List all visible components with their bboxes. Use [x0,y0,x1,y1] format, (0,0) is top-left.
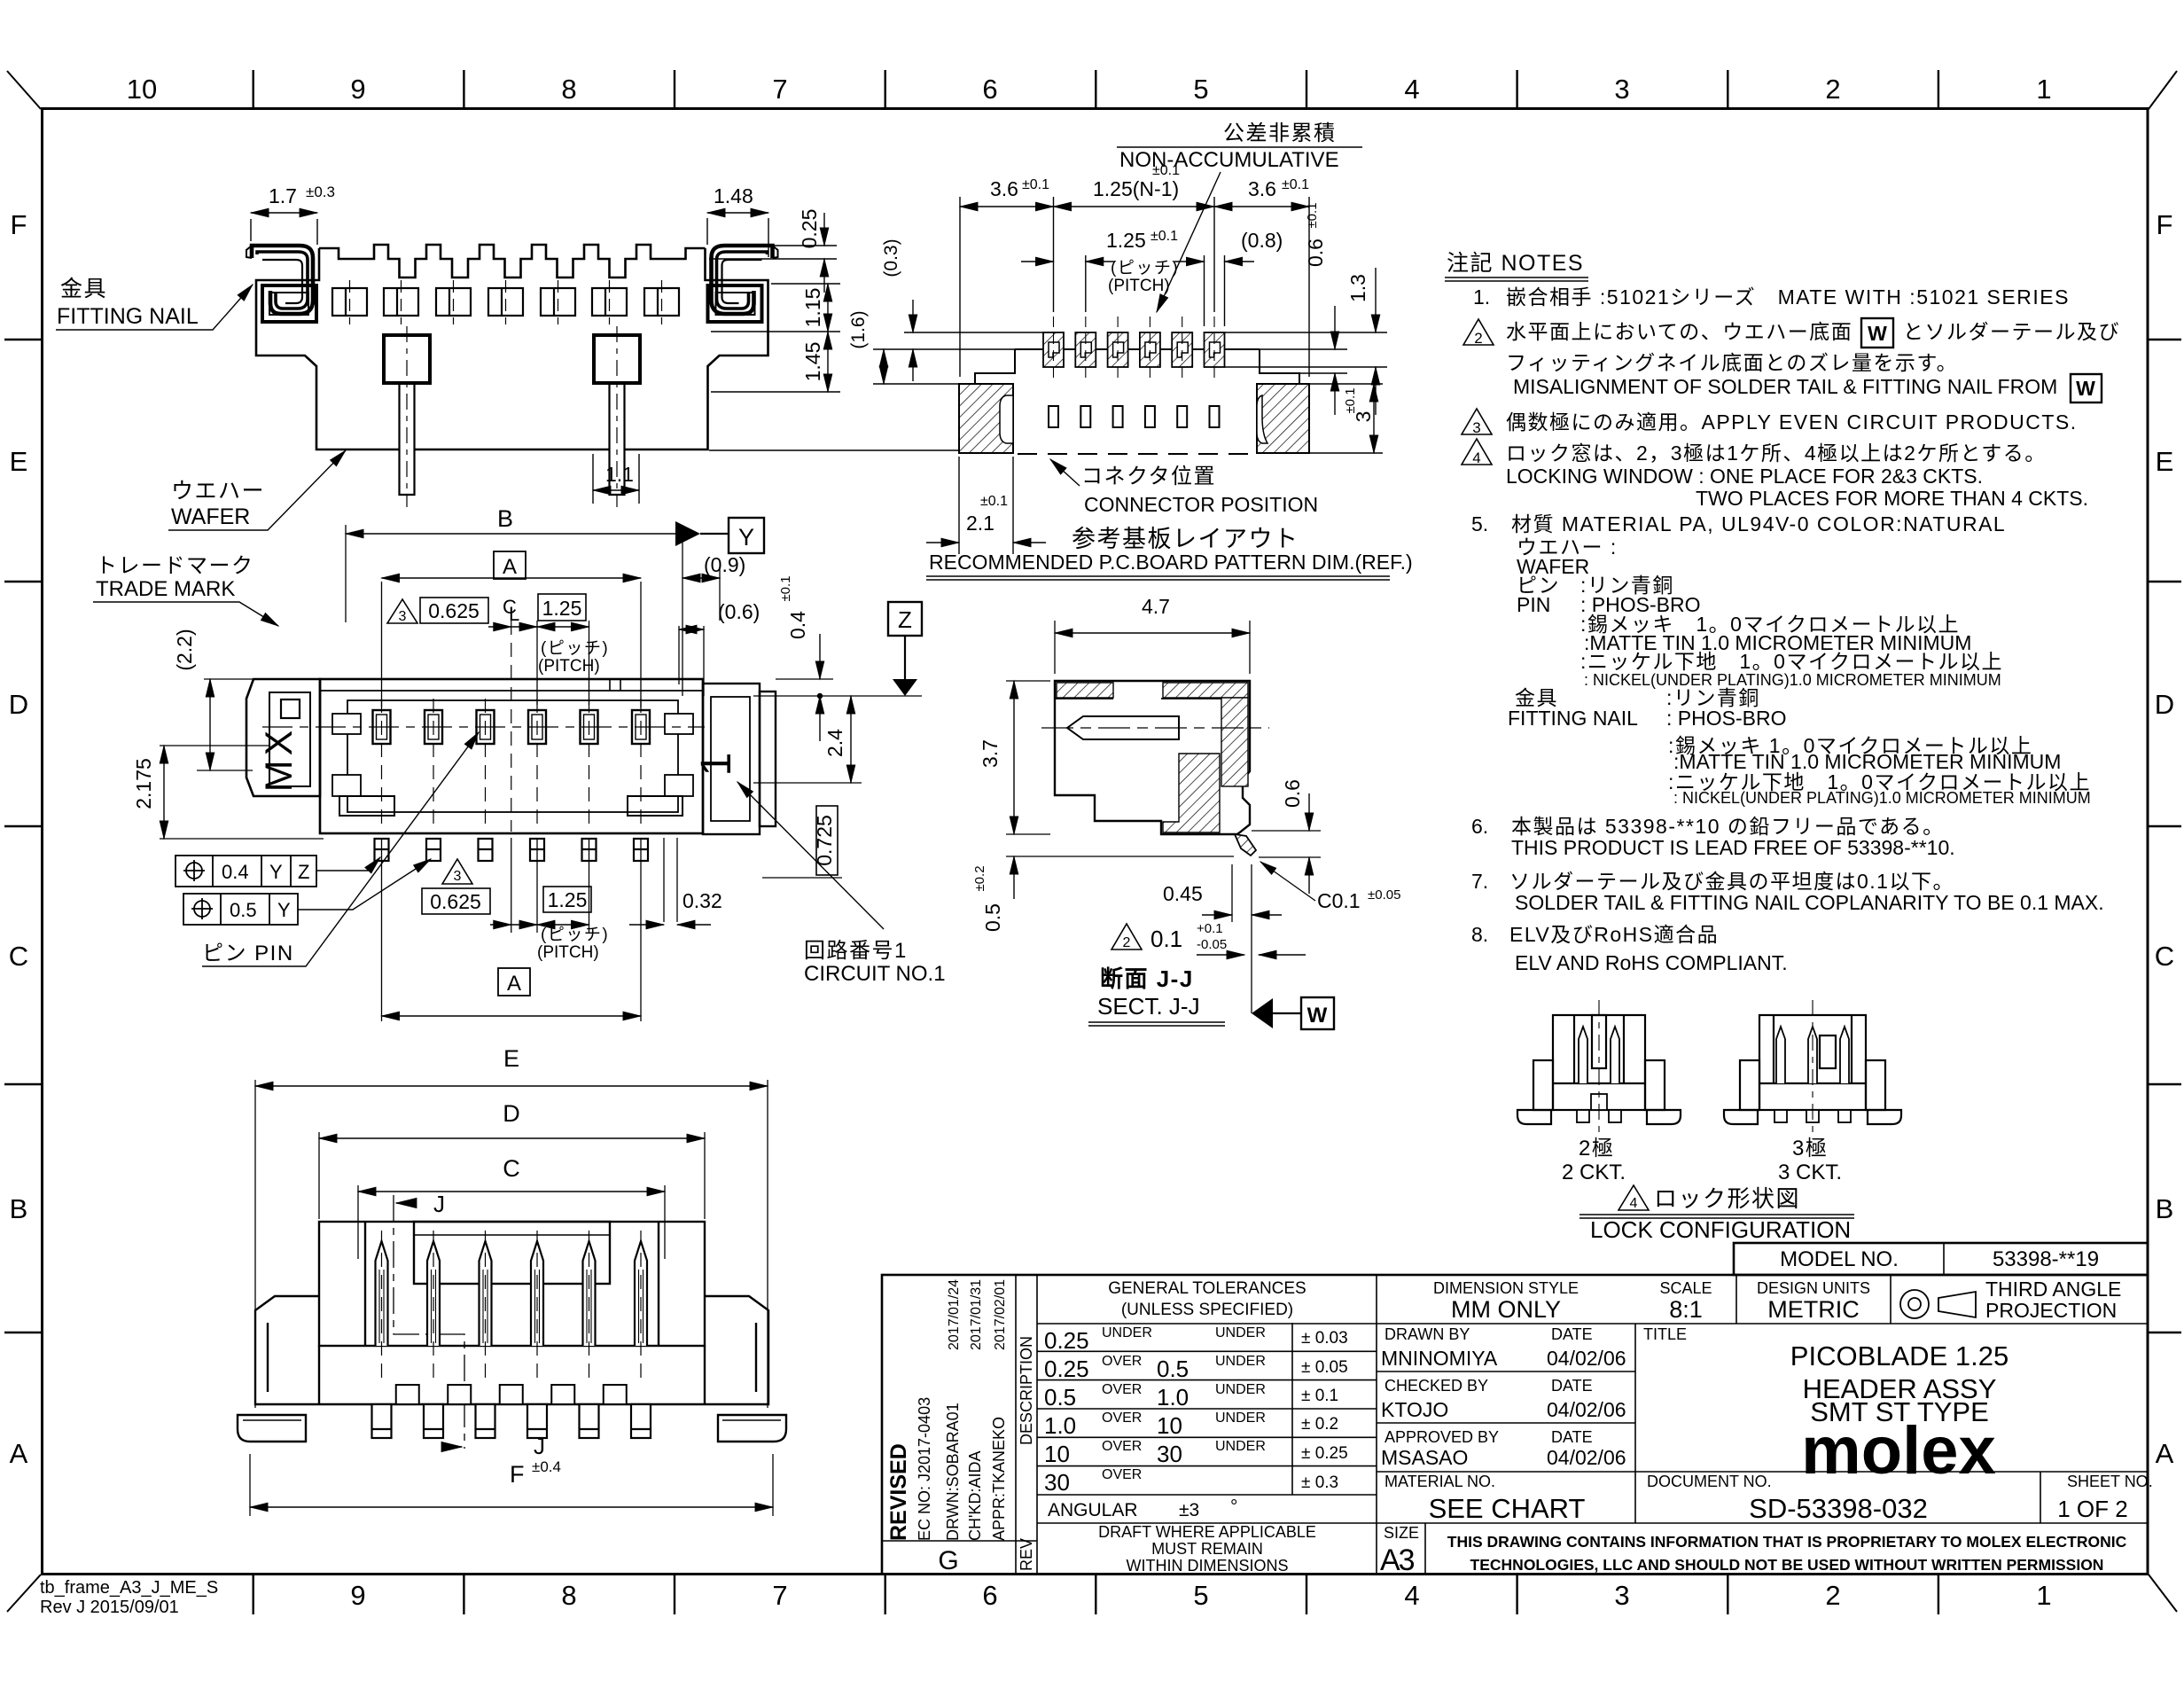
svg-text:1.3: 1.3 [1346,274,1369,302]
svg-text:CONNECTOR POSITION: CONNECTOR POSITION [1084,493,1318,516]
svg-text:UNDER: UNDER [1102,1325,1152,1340]
svg-text:2: 2 [1825,74,1840,105]
svg-text:A: A [10,1438,28,1469]
svg-text:(PITCH): (PITCH) [1108,277,1170,295]
svg-text:2: 2 [1123,935,1131,950]
svg-text:J: J [433,1191,445,1217]
svg-text:Y: Y [738,524,754,551]
svg-text:2.175: 2.175 [132,758,155,809]
svg-text:TRADE MARK: TRADE MARK [96,577,235,601]
svg-text:トレードマーク: トレードマーク [96,554,254,578]
svg-text:0.625: 0.625 [428,599,480,622]
svg-text:±0.1: ±0.1 [1305,202,1320,228]
svg-text:F: F [2157,209,2173,240]
svg-text:金具: 金具 [60,277,107,301]
svg-text:30: 30 [1157,1441,1182,1467]
svg-text:± 0.1: ± 0.1 [1301,1387,1338,1405]
svg-text:DATE: DATE [1551,1377,1593,1395]
svg-text:±0.1: ±0.1 [1022,177,1049,192]
svg-text:3: 3 [454,869,462,884]
svg-text:7: 7 [772,74,787,105]
svg-text:回路番号1: 回路番号1 [804,939,908,963]
svg-text:(UNLESS SPECIFIED): (UNLESS SPECIFIED) [1121,1301,1293,1319]
svg-text:DATE: DATE [1551,1325,1593,1343]
svg-text:(0.6): (0.6) [718,600,760,623]
svg-text:A: A [507,972,521,996]
svg-text:Y: Y [277,899,291,921]
svg-text:REVISED: REVISED [886,1443,911,1541]
svg-text:±0.1: ±0.1 [778,575,793,601]
svg-text:4: 4 [1472,449,1480,466]
svg-text:THIRD ANGLE: THIRD ANGLE [1985,1278,2121,1301]
svg-text:THIS DRAWING CONTAINS INFORMAT: THIS DRAWING CONTAINS INFORMATION THAT I… [1447,1533,2127,1551]
svg-text:B: B [497,505,513,532]
svg-text:Z: Z [898,606,912,633]
svg-text:OVER: OVER [1102,1439,1142,1454]
svg-text:-0.05: -0.05 [1197,937,1227,952]
svg-text:3: 3 [1614,1580,1629,1611]
svg-text:1.15: 1.15 [801,288,824,328]
svg-text:RECOMMENDED P.C.BOARD PATTERN: RECOMMENDED P.C.BOARD PATTERN DIM.(REF.) [929,551,1413,574]
svg-text:± 0.03: ± 0.03 [1301,1329,1348,1348]
svg-text:断面 J-J: 断面 J-J [1100,965,1194,992]
svg-text:1.1: 1.1 [605,463,634,486]
svg-text:SD-53398-032: SD-53398-032 [1749,1493,1928,1524]
svg-text:本製品は 53398-**10 の鉛フリー品である。: 本製品は 53398-**10 の鉛フリー品である。 [1511,815,1945,838]
svg-text:L: L [509,603,519,625]
svg-text:3 CKT.: 3 CKT. [1778,1160,1842,1184]
svg-text:UNDER: UNDER [1215,1439,1266,1454]
svg-text:1.0: 1.0 [1157,1384,1189,1411]
svg-text:D: D [9,689,28,720]
svg-text:MATERIAL NO.: MATERIAL NO. [1384,1473,1495,1490]
svg-text:ウエハー: ウエハー [171,479,265,504]
svg-text:04/02/06: 04/02/06 [1547,1398,1626,1421]
svg-text:+0.1: +0.1 [1197,921,1223,936]
svg-text:CH'KD:AIDA: CH'KD:AIDA [966,1451,984,1541]
svg-text:フィッティングネイル底面とのズレ量を示す。: フィッティングネイル底面とのズレ量を示す。 [1506,351,1958,374]
svg-text:± 0.05: ± 0.05 [1301,1358,1348,1377]
svg-text:WITHIN DIMENSIONS: WITHIN DIMENSIONS [1127,1557,1289,1575]
svg-text:ANGULAR: ANGULAR [1048,1500,1138,1520]
svg-text:(PITCH): (PITCH) [537,943,599,962]
svg-text:9: 9 [350,1580,365,1611]
svg-text:1 OF 2: 1 OF 2 [2057,1496,2127,1522]
svg-text:± 0.2: ± 0.2 [1301,1415,1338,1434]
svg-text:0.625: 0.625 [430,890,481,913]
svg-text:8:1: 8:1 [1669,1296,1703,1323]
svg-text:ELV及びRoHS適合品: ELV及びRoHS適合品 [1509,923,1719,946]
svg-text:5.: 5. [1471,512,1488,535]
svg-text:コネクタ位置: コネクタ位置 [1081,465,1216,488]
svg-text:MNINOMIYA: MNINOMIYA [1381,1347,1498,1370]
svg-text:水平面上においての、ウエハー底面: 水平面上においての、ウエハー底面 [1506,320,1852,343]
svg-text:SEE CHART: SEE CHART [1429,1493,1586,1524]
svg-text:1.25(N-1): 1.25(N-1) [1093,177,1179,200]
svg-text:WAFER: WAFER [171,504,250,529]
svg-text:(0.8): (0.8) [1241,229,1283,252]
svg-text:FITTING NAIL: FITTING NAIL [57,304,199,329]
svg-text:(1.6): (1.6) [848,310,869,348]
svg-text:DRWN:SOBARA01: DRWN:SOBARA01 [944,1403,962,1541]
svg-text:6: 6 [982,74,997,105]
svg-text:0.6: 0.6 [1304,238,1327,267]
svg-text:8.: 8. [1471,923,1488,946]
svg-text:材質 MATERIAL PA, UL94V-0 COLOR: 材質 MATERIAL PA, UL94V-0 COLOR:NATURAL [1511,512,2006,535]
svg-text:(0.3): (0.3) [881,238,901,277]
svg-text:W: W [2076,377,2095,400]
svg-text:30: 30 [1044,1469,1070,1496]
svg-text:OVER: OVER [1102,1411,1142,1426]
svg-text:KTOJO: KTOJO [1381,1398,1448,1421]
svg-text:A: A [503,555,517,579]
svg-text:±0.1: ±0.1 [1343,387,1358,413]
svg-text:0.6: 0.6 [1281,779,1304,808]
svg-text:± 0.3: ± 0.3 [1301,1473,1338,1492]
svg-text:0.5: 0.5 [230,899,257,921]
svg-text:PIN: PIN [1517,593,1550,616]
svg-text:PROJECTION: PROJECTION [1985,1299,2117,1322]
svg-text:UNDER: UNDER [1215,1354,1266,1369]
svg-text:1.0: 1.0 [1044,1412,1076,1439]
svg-text:7.: 7. [1471,870,1488,893]
svg-text:1: 1 [2036,74,2051,105]
svg-text:OVER: OVER [1102,1354,1142,1369]
svg-text:嵌合相手 :51021シリーズ MATE WITH :510: 嵌合相手 :51021シリーズ MATE WITH :51021 SERIES [1506,285,2070,309]
svg-text:E: E [2156,446,2174,477]
svg-text:0.5: 0.5 [1044,1384,1076,1411]
svg-text:DESIGN UNITS: DESIGN UNITS [1757,1279,1870,1297]
svg-text:CIRCUIT NO.1: CIRCUIT NO.1 [804,962,946,986]
svg-text:B: B [2156,1193,2174,1224]
svg-text:SECT. J-J: SECT. J-J [1097,993,1200,1020]
svg-text:TWO PLACES FOR MORE THAN 4 CKT: TWO PLACES FOR MORE THAN 4 CKTS. [1696,487,2088,510]
svg-text:2017/02/01: 2017/02/01 [993,1279,1008,1350]
svg-text:10: 10 [1044,1441,1070,1467]
svg-text:: PHOS-BRO: : PHOS-BRO [1666,707,1786,730]
svg-text:UNDER: UNDER [1215,1411,1266,1426]
svg-text:MX: MX [258,726,300,793]
svg-text:F: F [11,209,27,240]
svg-text:NON-ACCUMULATIVE: NON-ACCUMULATIVE [1119,148,1339,172]
svg-text:: NICKEL(UNDER PLATING)1.0 MIC: : NICKEL(UNDER PLATING)1.0 MICROMETER MI… [1673,789,2091,807]
svg-text:参考基板レイアウト: 参考基板レイアウト [1072,526,1299,552]
svg-text:THIS PRODUCT IS LEAD FREE OF 5: THIS PRODUCT IS LEAD FREE OF 53398-**10. [1511,836,1955,859]
svg-text:0.5: 0.5 [1157,1356,1189,1382]
svg-text:MISALIGNMENT OF SOLDER TAIL &: MISALIGNMENT OF SOLDER TAIL & FITTING NA… [1513,375,2057,398]
svg-text:DATE: DATE [1551,1428,1593,1446]
svg-text::ニッケル下地 1。0マイクロメートル以上: :ニッケル下地 1。0マイクロメートル以上 [1580,650,2003,673]
svg-text:1.45: 1.45 [801,342,824,382]
svg-text:3.6: 3.6 [990,177,1018,200]
svg-text:tb_frame_A3_J_ME_S: tb_frame_A3_J_ME_S [40,1578,218,1598]
svg-text:1.48: 1.48 [714,184,753,207]
svg-text:MODEL NO.: MODEL NO. [1780,1247,1899,1271]
svg-text:±0.3: ±0.3 [306,184,335,200]
svg-text:FITTING NAIL: FITTING NAIL [1508,707,1638,730]
svg-text:53398-**19: 53398-**19 [1993,1247,2099,1271]
svg-text:04/02/06: 04/02/06 [1547,1347,1626,1370]
svg-text:ソルダーテール及び金具の平坦度は0.1以下。: ソルダーテール及び金具の平坦度は0.1以下。 [1509,870,1954,893]
svg-text:DIMENSION STYLE: DIMENSION STYLE [1433,1279,1579,1297]
svg-text:1.: 1. [1473,285,1490,309]
svg-text:DESCRIPTION: DESCRIPTION [1018,1336,1035,1445]
svg-text:3: 3 [1614,74,1629,105]
svg-text:W: W [1868,322,1887,345]
svg-text:C0.1: C0.1 [1317,889,1361,912]
svg-text:SHEET NO.: SHEET NO. [2067,1473,2153,1490]
svg-text:1: 1 [693,753,740,777]
svg-text:: NICKEL(UNDER PLATING)1.0 MIC: : NICKEL(UNDER PLATING)1.0 MICROMETER MI… [1584,671,2001,689]
svg-text:2017/01/31: 2017/01/31 [969,1279,984,1350]
svg-text:5: 5 [1193,74,1208,105]
svg-text:Z: Z [298,861,309,883]
svg-text:10: 10 [127,74,157,105]
svg-text:C: C [503,1155,520,1182]
svg-text:DRAFT WHERE APPLICABLE: DRAFT WHERE APPLICABLE [1098,1523,1316,1541]
svg-text:D: D [2155,689,2174,720]
svg-text:偶数極にのみ適用。APPLY EVEN CIRCUIT PR: 偶数極にのみ適用。APPLY EVEN CIRCUIT PRODUCTS. [1506,410,2078,434]
svg-text:±0.1: ±0.1 [1150,229,1178,244]
svg-text:SCALE: SCALE [1659,1279,1712,1297]
svg-text:D: D [503,1100,520,1127]
svg-text:molex: molex [1801,1413,1996,1489]
svg-text:注記 NOTES: 注記 NOTES [1447,251,1584,276]
svg-text:±0.4: ±0.4 [532,1458,561,1475]
svg-text:SIZE: SIZE [1384,1524,1419,1542]
svg-text:2.1: 2.1 [966,512,994,535]
svg-text:MUST REMAIN: MUST REMAIN [1151,1540,1263,1558]
svg-text:7: 7 [772,1580,787,1611]
svg-text:(2.2): (2.2) [173,629,196,670]
svg-text:6: 6 [982,1580,997,1611]
svg-text:TECHNOLOGIES, LLC AND SHOULD N: TECHNOLOGIES, LLC AND SHOULD NOT BE USED… [1470,1556,2104,1574]
svg-text:(0.9): (0.9) [704,553,745,576]
svg-text:3.7: 3.7 [979,739,1002,768]
svg-text:± 0.25: ± 0.25 [1301,1444,1348,1463]
svg-text:8: 8 [561,74,576,105]
svg-text:SOLDER TAIL & FITTING NAIL COP: SOLDER TAIL & FITTING NAIL COPLANARITY T… [1515,891,2104,914]
svg-text:A: A [2156,1438,2174,1469]
svg-text:ロック窓は、2，3極は1ケ所、4極以上は2ケ所とする。: ロック窓は、2，3極は1ケ所、4極以上は2ケ所とする。 [1506,442,2047,465]
svg-text:GENERAL TOLERANCES: GENERAL TOLERANCES [1108,1279,1306,1298]
svg-text:8: 8 [561,1580,576,1611]
svg-text:2 CKT.: 2 CKT. [1562,1160,1626,1184]
svg-text:ロック形状図: ロック形状図 [1654,1185,1800,1212]
svg-text:1: 1 [2036,1580,2051,1611]
svg-text:9: 9 [350,74,365,105]
svg-text:±0.2: ±0.2 [972,865,987,891]
svg-text:PICOBLADE 1.25: PICOBLADE 1.25 [1790,1340,2008,1371]
svg-text:2: 2 [1825,1580,1840,1611]
svg-text:G: G [938,1546,958,1575]
svg-text:UNDER: UNDER [1215,1325,1266,1340]
svg-text:とソルダーテール及び: とソルダーテール及び [1903,320,2120,343]
svg-text:UNDER: UNDER [1215,1382,1266,1397]
svg-text:0.1: 0.1 [1150,926,1182,952]
svg-text:METRIC: METRIC [1767,1296,1860,1323]
svg-text:04/02/06: 04/02/06 [1547,1446,1626,1469]
svg-text:C: C [9,941,28,972]
svg-text:0.725: 0.725 [813,815,836,866]
svg-text:2: 2 [1474,330,1482,347]
svg-text:±0.1: ±0.1 [1282,177,1309,192]
svg-text:0.4: 0.4 [222,861,249,883]
svg-text:REV: REV [1018,1538,1035,1571]
svg-text:公差非累積: 公差非累積 [1223,121,1337,145]
svg-text:(ピッチ): (ピッチ) [1111,259,1179,277]
svg-text:MM ONLY: MM ONLY [1451,1296,1561,1323]
svg-text:E: E [503,1045,519,1072]
svg-text:Y: Y [269,861,283,883]
svg-text:TITLE: TITLE [1643,1325,1687,1343]
svg-text:5: 5 [1193,1580,1208,1611]
svg-text:1.25: 1.25 [1106,229,1146,252]
svg-text:0.25: 0.25 [1044,1327,1089,1354]
svg-text:EC NO: J2017-0403: EC NO: J2017-0403 [916,1397,933,1541]
svg-text:1.25: 1.25 [542,597,582,620]
svg-text:1.7: 1.7 [269,184,297,207]
svg-text:4: 4 [1404,1580,1419,1611]
svg-text:±0.05: ±0.05 [1368,887,1400,903]
svg-text:APPR:TKANEKO: APPR:TKANEKO [990,1417,1008,1541]
svg-text:Rev J 2015/09/01: Rev J 2015/09/01 [40,1598,179,1617]
svg-text:4.7: 4.7 [1142,595,1170,618]
svg-text:OVER: OVER [1102,1382,1142,1397]
svg-text:F: F [510,1461,525,1488]
svg-text:CHECKED BY: CHECKED BY [1384,1377,1488,1395]
svg-text:(ピッチ): (ピッチ) [541,926,609,944]
svg-text:3: 3 [1472,419,1480,436]
svg-text:10: 10 [1157,1412,1182,1439]
svg-text:(PITCH): (PITCH) [538,657,600,676]
svg-text:0.4: 0.4 [786,611,809,639]
svg-text:±3: ±3 [1179,1500,1199,1520]
svg-text:C: C [2155,941,2174,972]
svg-text:0.5: 0.5 [981,903,1004,932]
svg-text:LOCK CONFIGURATION: LOCK CONFIGURATION [1590,1216,1851,1243]
svg-text:DRAWN BY: DRAWN BY [1384,1325,1470,1343]
svg-text:±0.1: ±0.1 [980,494,1008,509]
svg-text:A3: A3 [1380,1543,1415,1577]
svg-text:6.: 6. [1471,815,1488,838]
svg-text:ピン PIN: ピン PIN [202,942,294,965]
svg-text:0.25: 0.25 [798,209,821,249]
svg-text:°: ° [1230,1497,1237,1517]
svg-text:2017/01/24: 2017/01/24 [947,1279,962,1350]
svg-text:3.6: 3.6 [1248,177,1276,200]
svg-text:MSASAO: MSASAO [1381,1446,1468,1469]
svg-text:3極: 3極 [1792,1137,1828,1160]
svg-text:ELV AND RoHS COMPLIANT.: ELV AND RoHS COMPLIANT. [1515,951,1788,974]
svg-text:0.32: 0.32 [682,889,722,912]
svg-text:0.45: 0.45 [1163,882,1203,905]
svg-text:E: E [10,446,28,477]
svg-text:W: W [1307,1004,1328,1028]
svg-text:DOCUMENT NO.: DOCUMENT NO. [1647,1473,1772,1490]
svg-text:3: 3 [399,609,407,624]
svg-text:0.25: 0.25 [1044,1356,1089,1382]
svg-text:1.25: 1.25 [548,888,588,911]
svg-text:(ピッチ): (ピッチ) [541,639,609,658]
svg-text:LOCKING WINDOW : ONE PLACE FOR: LOCKING WINDOW : ONE PLACE FOR 2&3 CKTS. [1506,465,1983,488]
svg-text:4: 4 [1630,1196,1638,1211]
svg-text:4: 4 [1404,74,1419,105]
svg-text:OVER: OVER [1102,1467,1142,1482]
svg-text:APPROVED BY: APPROVED BY [1384,1428,1499,1446]
svg-text:B: B [10,1193,28,1224]
svg-text:2.4: 2.4 [823,729,846,757]
svg-text:2極: 2極 [1579,1137,1614,1160]
